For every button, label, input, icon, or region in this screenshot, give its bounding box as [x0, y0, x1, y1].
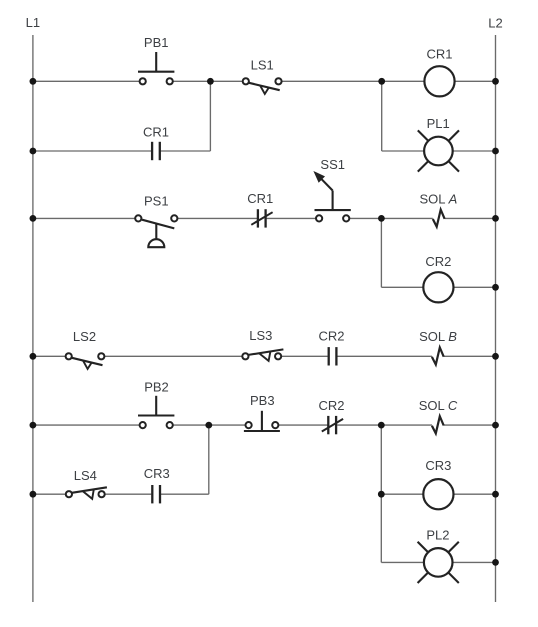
pilot light PL1 — [418, 130, 459, 171]
wire branch to PL1 — [382, 150, 425, 152]
wire CR3 contact to riser — [161, 493, 209, 495]
wire rung3 LS3 to CR2 contact — [278, 355, 328, 357]
svg-text:PS1: PS1 — [144, 194, 169, 209]
wire seal branch CR1 contact to junction riser — [161, 150, 211, 152]
wire rung2 L1 to PS1 — [33, 217, 138, 219]
junction rung1 before CR1 coil — [378, 78, 385, 85]
wire rung4 PB3 to CR2 NC contact — [275, 424, 327, 426]
wire branch PB2-junction down to LS4 branch — [208, 425, 210, 494]
limit switch LS1 (NO) — [243, 78, 282, 94]
relay coil CR3 — [423, 479, 453, 509]
junction CR3-coil branch — [378, 491, 385, 498]
wire branch rung1 down to PL1 — [381, 81, 383, 151]
svg-text:CR2: CR2 — [318, 329, 344, 344]
wire rung2 SS1 to SOL A — [346, 217, 433, 219]
junction L1-rung3 — [30, 353, 37, 360]
svg-text:CR1: CR1 — [143, 125, 169, 140]
wire branch down to PL2 — [380, 494, 382, 562]
svg-text:CR2: CR2 — [318, 398, 344, 413]
pilot light PL2 — [418, 542, 459, 583]
svg-text:CR2: CR2 — [425, 254, 451, 269]
relay contact CR2 (NO) — [329, 347, 337, 365]
relay contact CR2 (NC) — [322, 416, 343, 434]
wire branch to PL2 — [381, 561, 425, 563]
solenoid SOL A — [433, 210, 445, 227]
limit switch LS3 (NC) — [242, 349, 283, 361]
svg-text:CR1: CR1 — [247, 191, 273, 206]
svg-text:LS1: LS1 — [251, 58, 274, 73]
pushbutton PB2 (NO) — [138, 396, 174, 428]
wire LS4 to CR3 contact — [102, 493, 152, 495]
wire rung2 CR1 contact to SS1 — [266, 217, 319, 219]
junction L1-seal branch — [30, 148, 37, 155]
limit switch LS2 (NO) — [66, 353, 105, 369]
wire rung4 CR2 contact to SOL C — [337, 424, 432, 426]
svg-text:SOL C: SOL C — [419, 398, 458, 413]
wire rung3 CR2 contact to SOL B — [337, 355, 432, 357]
wire rung4 SOL C to L2 — [444, 424, 496, 426]
junction rung1 after PB1 — [207, 78, 214, 85]
svg-text:PB1: PB1 — [144, 35, 169, 50]
junction L2-rung4 — [492, 422, 499, 429]
junction L2-rung1 — [492, 78, 499, 85]
wire branch rung4 down to CR3 coil — [380, 425, 382, 494]
svg-text:LS3: LS3 — [249, 328, 272, 343]
wire rung3 L1 to LS2 — [33, 355, 69, 357]
svg-text:SOL A: SOL A — [419, 191, 457, 206]
relay contact CR1 seal-in (NO) — [152, 142, 160, 160]
wire branch rung2 down to CR2 coil — [380, 218, 382, 287]
solenoid SOL B — [432, 348, 444, 365]
junction rung4 after PB2 — [205, 422, 212, 429]
junction rung2 after SS1 — [378, 215, 385, 222]
wire PL2 to L2 — [452, 561, 495, 563]
wire rung1 PB1 to LS1 — [170, 80, 246, 82]
wire rung1 L1 to PB1 — [33, 80, 143, 82]
svg-text:PB2: PB2 — [144, 380, 169, 395]
wire rung1 LS1 to CR1 coil — [279, 80, 425, 82]
wire seal branch L1 to CR1 contact — [33, 150, 151, 152]
limit switch LS4 (NC) — [66, 487, 107, 499]
svg-text:CR3: CR3 — [144, 466, 170, 481]
selector switch SS1 — [315, 173, 351, 221]
wire branch PB1-junction down to CR1 contact — [209, 81, 211, 151]
solenoid SOL C — [432, 416, 444, 433]
pushbutton PB3 (NC) — [244, 411, 280, 431]
svg-text:LS4: LS4 — [74, 468, 97, 483]
power rail L1 — [32, 35, 34, 602]
svg-text:LS2: LS2 — [73, 329, 96, 344]
relay coil CR2 — [423, 272, 453, 302]
relay contact CR1 (NC) — [251, 209, 272, 227]
svg-text:PL1: PL1 — [427, 116, 450, 131]
wire branch to CR3 coil — [381, 493, 424, 495]
svg-text:L1: L1 — [26, 15, 40, 30]
wire rung4 PB2 to PB3 — [170, 424, 249, 426]
svg-text:PB3: PB3 — [250, 393, 275, 408]
svg-text:L2: L2 — [488, 16, 502, 31]
junction L2-CR3 coil — [492, 491, 499, 498]
wire branch to CR2 coil — [381, 286, 424, 288]
power rail L2 — [495, 35, 497, 602]
wire rung3 LS2 to LS3 — [101, 355, 245, 357]
junction L1-rung2 — [30, 215, 37, 222]
svg-text:PL2: PL2 — [426, 527, 449, 542]
svg-text:SOL B: SOL B — [419, 329, 457, 344]
junction L2-rung2 — [492, 215, 499, 222]
junction L1-rung1 — [30, 78, 37, 85]
junction L2-PL2 — [492, 559, 499, 566]
svg-text:CR1: CR1 — [426, 47, 452, 62]
junction L1-LS4 branch — [30, 491, 37, 498]
wire rung2 SOL A to L2 — [445, 217, 496, 219]
pushbutton PB1 (NO) — [138, 52, 174, 84]
wire CR3 coil to L2 — [454, 493, 496, 495]
svg-text:CR3: CR3 — [425, 458, 451, 473]
wire rung4 L1 to PB2 — [33, 424, 143, 426]
junction L2-PL1 — [492, 148, 499, 155]
wire rung1 CR1 coil to L2 — [455, 80, 496, 82]
wire rung2 PS1 to CR1 NC contact — [174, 217, 257, 219]
wire PL1 to L2 — [453, 150, 496, 152]
junction L2-CR2 coil — [492, 284, 499, 291]
pressure switch PS1 — [135, 215, 177, 247]
wire rung3 SOL B to L2 — [444, 355, 496, 357]
junction L1-rung4 — [30, 422, 37, 429]
wire CR2 coil to L2 — [454, 286, 496, 288]
wire LS4 branch L1 to LS4 — [33, 493, 69, 495]
relay coil CR1 — [424, 66, 454, 96]
junction rung4 before SOL C — [378, 422, 385, 429]
svg-text:SS1: SS1 — [320, 157, 345, 172]
relay contact CR3 seal-in (NO) — [152, 485, 160, 503]
junction L2-rung3 — [492, 353, 499, 360]
